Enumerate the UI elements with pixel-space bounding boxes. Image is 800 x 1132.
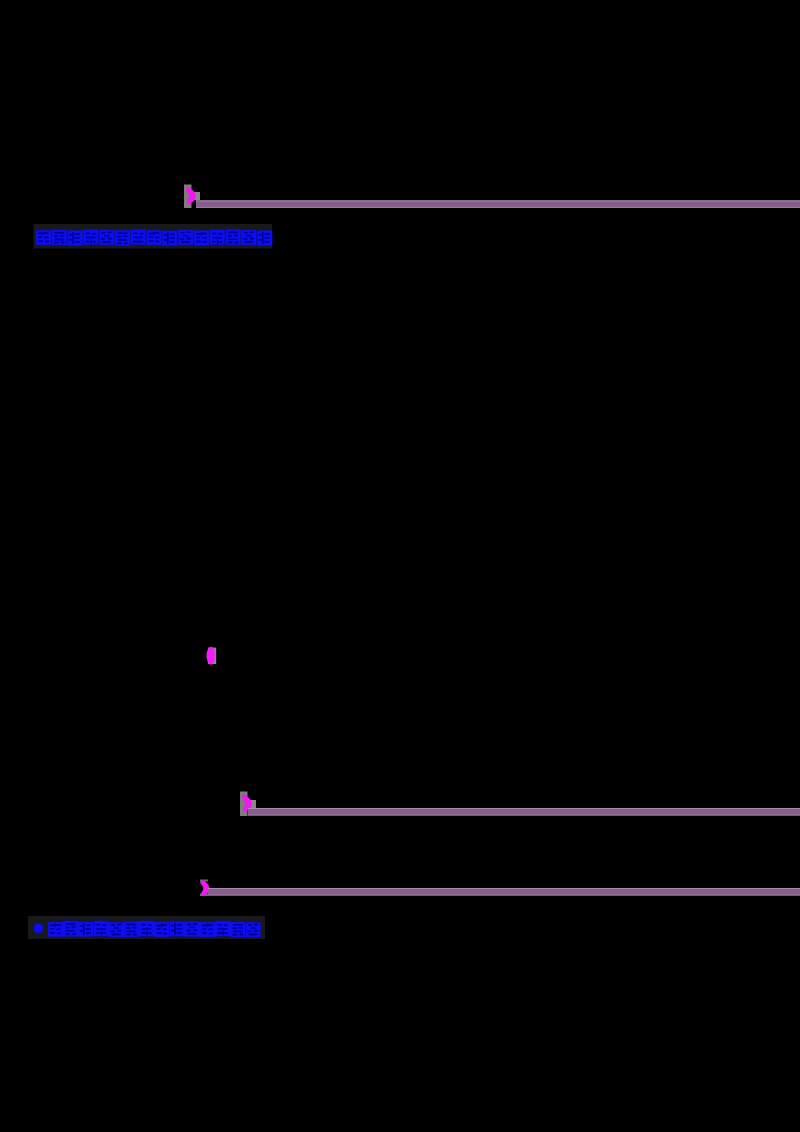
magenta paren 3 [200, 880, 208, 897]
magenta paren 2 [244, 797, 250, 810]
purple underline 2 [248, 808, 800, 816]
gray glyph strip 2 [240, 792, 256, 817]
blue text row 2 [48, 921, 261, 937]
purple underline 1 [196, 200, 800, 208]
blue bullet row 2 [34, 923, 44, 933]
row 2 faint highlight box [28, 916, 265, 939]
blue text row 1 [36, 229, 272, 245]
row 1 faint highlight box [34, 224, 273, 249]
purple underline 3 [208, 888, 800, 896]
gray glyph strip 1 [184, 185, 200, 209]
magenta left-paren mid-page [208, 648, 216, 664]
magenta paren 1 [188, 190, 194, 203]
